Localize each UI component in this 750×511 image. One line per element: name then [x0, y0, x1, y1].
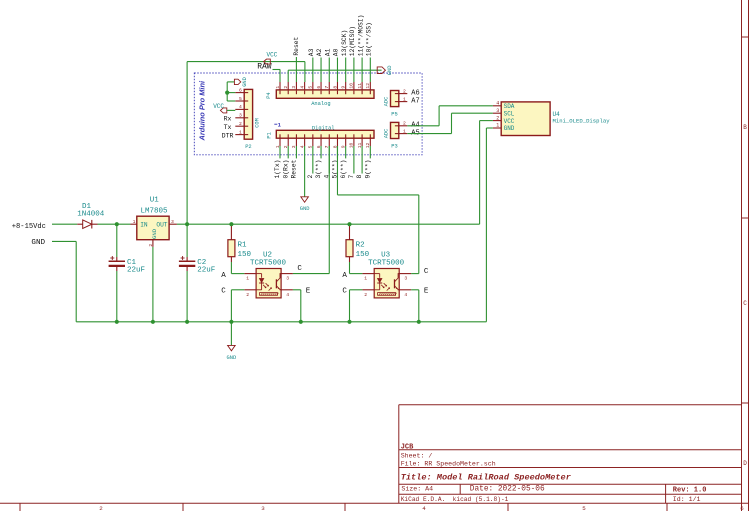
svg-text:2: 2 — [403, 89, 406, 95]
junction C2 top — [185, 222, 189, 226]
svg-text:P1: P1 — [266, 132, 272, 138]
junction R1 top — [229, 222, 233, 226]
svg-text:6: 6 — [239, 87, 242, 93]
svg-text:OUT: OUT — [156, 221, 167, 228]
label Tx — [224, 124, 232, 131]
wire U3 collector — [411, 273, 419, 275]
wires analog pins A3..10 — [313, 58, 370, 83]
svg-text:A7: A7 — [411, 97, 419, 105]
label C at U2 collector — [297, 265, 302, 273]
wire input to diode — [52, 223, 77, 225]
svg-text:GND: GND — [227, 355, 237, 361]
svg-text:1N4004: 1N4004 — [77, 211, 105, 219]
svg-text:3: 3 — [496, 108, 499, 114]
svg-text:150: 150 — [238, 251, 252, 259]
svg-text:ADC: ADC — [383, 129, 389, 139]
global label VCC at P2 pin 4 — [213, 103, 235, 113]
svg-text:GND: GND — [151, 228, 158, 239]
label A at U2 — [221, 272, 226, 280]
svg-text:3: 3 — [404, 276, 407, 282]
svg-text:Reset: Reset — [291, 159, 298, 178]
svg-text:3(**): 3(**) — [315, 160, 322, 179]
svg-text:2: 2 — [364, 292, 367, 298]
global label VCC top — [264, 51, 278, 64]
svg-text:GND: GND — [242, 77, 248, 87]
wire OLED VCC to rail — [480, 121, 493, 225]
svg-text:5: 5 — [239, 96, 242, 102]
svg-text:5: 5 — [308, 86, 314, 89]
label Reset — [293, 36, 300, 55]
svg-text:12: 12 — [365, 83, 371, 89]
svg-text:11(**/MOSI): 11(**/MOSI) — [357, 15, 364, 57]
svg-text:A2: A2 — [316, 48, 323, 56]
svg-text:A: A — [342, 272, 347, 280]
svg-text:7: 7 — [348, 175, 355, 179]
svg-text:Digital: Digital — [312, 125, 335, 131]
wire C2 to gnd rail — [186, 271, 188, 322]
junction U3 cathode gnd — [347, 320, 351, 324]
svg-text:VCC: VCC — [504, 118, 515, 125]
svg-text:150: 150 — [356, 251, 370, 259]
wire diode to U1 — [98, 223, 131, 225]
svg-text:3: 3 — [291, 86, 297, 89]
svg-text:10: 10 — [349, 83, 355, 89]
wire U2 collector — [293, 273, 329, 275]
label DTR — [222, 132, 234, 139]
label GND input — [31, 239, 45, 247]
connector P3 ADC — [383, 121, 419, 150]
svg-text:R1: R1 — [238, 241, 248, 249]
svg-text:2: 2 — [99, 505, 103, 511]
svg-text:JCB: JCB — [401, 443, 414, 451]
svg-text:A: A — [221, 272, 226, 280]
svg-text:2: 2 — [239, 121, 242, 127]
svg-text:1: 1 — [403, 97, 406, 103]
svg-text:Date: 2022-05-06: Date: 2022-05-06 — [470, 485, 545, 493]
label E at U3 emitter — [424, 288, 429, 296]
diode D1 — [77, 203, 105, 228]
svg-text:4: 4 — [299, 86, 305, 89]
connector P1 Digital — [266, 121, 374, 148]
svg-text:2: 2 — [307, 175, 314, 179]
wire VCC riser to arduino — [186, 62, 188, 225]
svg-text:6: 6 — [740, 505, 744, 511]
svg-text:Mini_OLED_Display: Mini_OLED_Display — [553, 117, 611, 124]
svg-text:13(SCK): 13(SCK) — [341, 30, 348, 56]
wire U2 cathode to gnd — [231, 290, 244, 322]
label +8-15Vdc — [12, 223, 46, 231]
global label GND right of P4 — [377, 65, 393, 75]
svg-text:IN: IN — [140, 221, 148, 228]
svg-text:0(Rx): 0(Rx) — [282, 160, 289, 179]
connector P4 Analog — [266, 82, 374, 107]
wire GND from P4 pin 2 — [288, 70, 381, 82]
svg-text:Size: A4: Size: A4 — [401, 485, 433, 492]
wire R1 to U2 anode — [231, 273, 244, 275]
svg-text:B: B — [743, 124, 747, 131]
junction input cap — [115, 222, 119, 226]
svg-text:3: 3 — [286, 276, 289, 282]
svg-text:C: C — [221, 288, 226, 296]
svg-text:U1: U1 — [150, 196, 160, 204]
svg-text:C: C — [424, 268, 429, 276]
svg-text:GND: GND — [504, 125, 515, 132]
wire U2 emitter to gnd — [293, 290, 301, 322]
svg-text:1: 1 — [364, 276, 367, 282]
wire GND rail — [76, 321, 486, 323]
svg-text:Sheet: /: Sheet: / — [401, 453, 433, 460]
wire P1 pin7 (D4) down to U2 collector — [328, 146, 330, 274]
svg-text:DTR: DTR — [222, 132, 234, 139]
wire VCC rail — [177, 223, 480, 225]
svg-text:P4: P4 — [266, 92, 272, 98]
ground symbol below U2 — [227, 345, 237, 361]
svg-text:11: 11 — [357, 83, 363, 89]
junction R2 top — [347, 222, 351, 226]
svg-text:2: 2 — [403, 121, 406, 127]
labels A3 A2 A1 A0 13(SCK) 12(MISO) 11(**/MOSI) 10(**/SS) — [308, 15, 372, 57]
op-amp? no - display module U4 Mini_OLED_Display — [493, 101, 610, 136]
svg-text:9: 9 — [340, 86, 346, 89]
svg-text:3: 3 — [171, 219, 174, 225]
svg-text:A0: A0 — [333, 48, 340, 56]
capacitor C1 — [109, 256, 145, 275]
svg-text:GND: GND — [31, 239, 45, 247]
svg-text:Rev: 1.0: Rev: 1.0 — [673, 486, 707, 494]
label C at U3 cathode — [342, 288, 347, 296]
svg-text:GND: GND — [387, 65, 393, 75]
capacitor C2 — [179, 256, 215, 275]
optocoupler U3 TCRT5000 — [362, 251, 411, 298]
svg-text:File: RR SpeedoMeter.sch: File: RR SpeedoMeter.sch — [401, 460, 496, 467]
svg-text:22uF: 22uF — [127, 267, 145, 275]
junction U2 cathode gnd — [229, 320, 233, 324]
svg-text:10(**/SS): 10(**/SS) — [366, 22, 373, 56]
svg-text:12(MISO): 12(MISO) — [349, 26, 356, 56]
svg-text:Analog: Analog — [311, 101, 330, 107]
svg-text:R2: R2 — [356, 241, 365, 249]
resistor R1 150 — [228, 224, 252, 273]
svg-text:4: 4 — [286, 292, 289, 298]
svg-text:1: 1 — [246, 276, 249, 282]
optocoupler U2 TCRT5000 — [244, 251, 293, 298]
svg-text:P3: P3 — [391, 143, 397, 149]
svg-text:Reset: Reset — [293, 36, 300, 55]
svg-text:Arduino Pro Mini: Arduino Pro Mini — [198, 80, 207, 141]
svg-text:D: D — [743, 460, 747, 467]
wires digital pin labels — [280, 146, 370, 174]
wire gnd drop below U2 — [230, 322, 232, 346]
svg-text:2: 2 — [283, 86, 289, 89]
svg-text:KiCad E.D.A. kicad (5.1.8)-1: KiCad E.D.A. kicad (5.1.8)-1 — [401, 496, 509, 503]
svg-text:1: 1 — [275, 86, 281, 89]
wire RAW to P4 pin 1 — [273, 70, 281, 83]
global label GND at P2 top — [234, 77, 247, 87]
wire U3 cathode to gnd — [350, 290, 363, 322]
svg-text:A1: A1 — [324, 48, 331, 56]
svg-text:Rx: Rx — [224, 116, 232, 123]
svg-text:ADC: ADC — [383, 97, 389, 107]
wire R2 to U3 anode — [350, 273, 363, 275]
label C at U2 cathode — [221, 288, 226, 296]
wire P1 pin4 to GND — [304, 146, 306, 197]
resistor R2 150 — [346, 224, 370, 273]
wire P1 pin8 (D5) to U3 collector — [337, 146, 418, 274]
svg-text:E: E — [306, 288, 311, 296]
wire P2 pin6 pin5 to GND label — [227, 82, 235, 101]
junction U1 gnd — [151, 320, 155, 324]
svg-text:COM: COM — [254, 118, 260, 128]
svg-text:+8-15Vdc: +8-15Vdc — [12, 223, 46, 231]
svg-text:2: 2 — [496, 115, 499, 121]
svg-text:C: C — [342, 288, 347, 296]
label Rx — [224, 116, 232, 123]
wire A5 to OLED SCL — [407, 113, 493, 133]
wire C1 to gnd rail — [116, 271, 118, 322]
Arduino Pro Mini module outline — [194, 73, 422, 155]
svg-text:SCL: SCL — [504, 110, 515, 117]
svg-text:U3: U3 — [381, 251, 391, 259]
svg-text:Tx: Tx — [224, 124, 232, 131]
wire U3 emitter to gnd — [411, 290, 419, 322]
wire to C1 — [116, 224, 118, 257]
svg-text:SDA: SDA — [504, 103, 515, 110]
svg-text:6(**): 6(**) — [340, 160, 347, 179]
title block — [399, 405, 742, 504]
svg-text:TCRT5000: TCRT5000 — [368, 259, 405, 267]
wire Reset to P4 pin 3 — [295, 57, 297, 82]
svg-text:P2: P2 — [245, 144, 251, 150]
svg-text:2: 2 — [148, 244, 154, 247]
svg-text:A6: A6 — [411, 89, 419, 97]
svg-text:VCC: VCC — [267, 51, 278, 58]
label E at U2 emitter — [306, 288, 311, 296]
svg-text:E: E — [424, 288, 429, 296]
label A at U3 — [342, 272, 347, 280]
svg-text:Id: 1/1: Id: 1/1 — [673, 496, 701, 503]
svg-text:7: 7 — [324, 86, 330, 89]
svg-text:C: C — [743, 300, 747, 307]
svg-text:1(Tx): 1(Tx) — [274, 160, 281, 179]
connector P2 COM — [235, 87, 260, 150]
svg-text:9(**): 9(**) — [364, 160, 371, 179]
wire VCC to P4 pin 4 — [187, 62, 305, 82]
junction C1 gnd — [115, 320, 119, 324]
label C at U3 collector — [424, 268, 429, 276]
wire A4 to OLED SDA — [407, 106, 493, 126]
svg-text:3: 3 — [261, 505, 265, 511]
junction U2 emitter gnd — [299, 320, 303, 324]
svg-text:C: C — [297, 265, 302, 273]
svg-text:1: 1 — [133, 219, 136, 225]
labels 1(Tx) 0(Rx) Reset 2 3(**) 4 5(**) 6(**) 7 8 9(**) — [274, 159, 371, 178]
junction C2 gnd — [185, 320, 189, 324]
svg-text:4: 4 — [239, 104, 242, 110]
svg-text:LM7805: LM7805 — [140, 208, 168, 216]
svg-text:3: 3 — [239, 113, 242, 119]
svg-text:A3: A3 — [308, 48, 315, 56]
svg-text:TCRT5000: TCRT5000 — [250, 259, 287, 267]
svg-text:GND: GND — [300, 206, 310, 212]
svg-text:4: 4 — [422, 505, 426, 511]
svg-text:5: 5 — [582, 505, 586, 511]
wire U1 GND down — [152, 247, 154, 322]
svg-text:4: 4 — [496, 101, 499, 107]
svg-text:U2: U2 — [263, 251, 272, 259]
wire GND input down — [52, 241, 76, 321]
svg-text:Title: Model RailRoad SpeedoMe: Title: Model RailRoad SpeedoMeter — [401, 473, 571, 483]
svg-text:4: 4 — [404, 292, 407, 298]
ground symbol below P1 — [300, 197, 310, 212]
svg-text:8: 8 — [356, 175, 363, 179]
regulator U1 LM7805 — [131, 196, 177, 247]
svg-text:2: 2 — [246, 292, 249, 298]
svg-text:1: 1 — [239, 129, 242, 135]
junction U3 emitter gnd — [417, 320, 421, 324]
svg-text:22uF: 22uF — [197, 267, 215, 275]
wire to C2 — [186, 224, 188, 257]
svg-text:6: 6 — [316, 86, 322, 89]
connector P5 ADC — [383, 89, 419, 118]
svg-text:1: 1 — [403, 129, 406, 135]
svg-text:VCC: VCC — [213, 103, 224, 110]
junction P2 gnd — [225, 91, 229, 95]
wire OLED GND down — [486, 128, 493, 322]
svg-text:8: 8 — [332, 86, 338, 89]
svg-text:1: 1 — [496, 123, 499, 129]
svg-text:P5: P5 — [391, 111, 397, 117]
label RAW — [257, 63, 272, 72]
